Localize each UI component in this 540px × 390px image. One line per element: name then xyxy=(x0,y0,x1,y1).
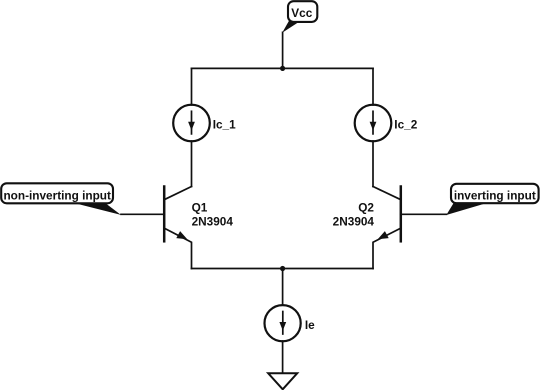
svg-text:2N3904: 2N3904 xyxy=(333,214,375,228)
svg-text:Ie: Ie xyxy=(305,318,315,332)
svg-text:Q2: Q2 xyxy=(358,201,374,215)
svg-text:inverting input: inverting input xyxy=(454,188,536,202)
svg-text:non-inverting input: non-inverting input xyxy=(3,188,111,202)
svg-text:Ic_1: Ic_1 xyxy=(213,118,236,132)
svg-text:Q1: Q1 xyxy=(192,201,208,215)
svg-text:Ic_2: Ic_2 xyxy=(394,118,417,132)
svg-text:Vcc: Vcc xyxy=(291,6,312,20)
svg-text:2N3904: 2N3904 xyxy=(192,214,234,228)
